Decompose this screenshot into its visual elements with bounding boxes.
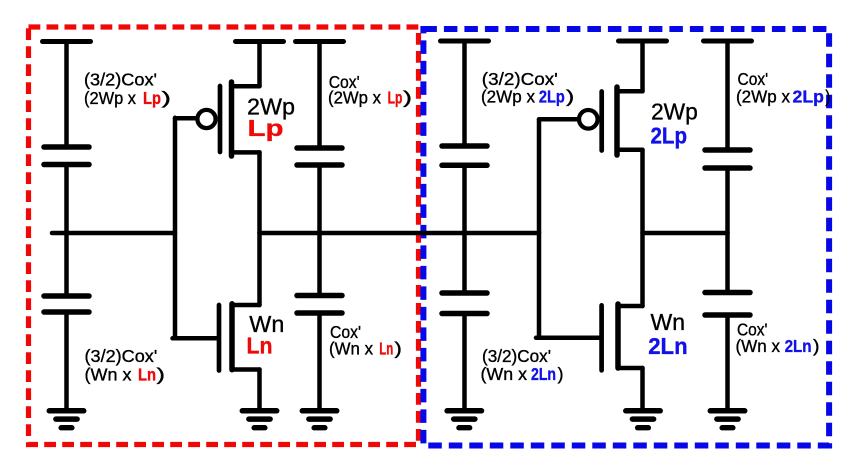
wire C8 Cox'(Wn x 2Ln) lower plate to ground (725, 315, 730, 408)
wire NMOS M4 drain horizontal (618, 304, 643, 309)
wire input node rail of inverter U1 (node A) (52, 231, 175, 236)
capacitor C6 (3/2)Cox'(Wn x 2Ln) lower plate (442, 311, 487, 317)
wire C7 Cox'(2Wp x 2Lp) top terminal to upper plate (725, 41, 730, 150)
svg-text:(3/2)Cox': (3/2)Cox' (85, 346, 158, 366)
wire PMOS M3 source up to top terminal (640, 41, 645, 91)
capacitor C3 Cox'(2Wp x Lp) lower plate (297, 162, 342, 168)
wire C3 Cox'(2Wp x Lp) top terminal to upper plate (317, 42, 322, 149)
capacitor C5 (3/2)Cox'(2Wp x 2Lp) upper plate (442, 143, 487, 149)
label value of C6: (3/2)Cox' (Wn x 2Ln) (481, 346, 564, 384)
NMOS M2 gate bar (217, 305, 222, 371)
wire C4 Cox'(Wn x Ln) lower plate to ground (317, 313, 322, 408)
svg-text:(2Wp x: (2Wp x (736, 87, 790, 107)
wire PMOS M1 drain horizontal (232, 150, 260, 155)
svg-text:): ) (157, 364, 166, 384)
capacitor C3 Cox'(2Wp x Lp) top terminal bar (296, 39, 344, 44)
svg-text:(Wn x: (Wn x (481, 364, 528, 384)
PMOS M3 source top terminal bar (619, 39, 667, 44)
red dashed box enclosing minimum-length inverter stage (29, 27, 419, 445)
wire mid rail to C6 (3/2)Cox'(Wn x 2Ln) upper plate (462, 233, 467, 293)
svg-text:(3/2)Cox': (3/2)Cox' (482, 346, 551, 366)
ground G3 below C4 (302, 411, 336, 428)
PMOS M3 gate bar (599, 92, 604, 151)
capacitor C4 Cox'(Wn x Ln) lower plate (297, 310, 342, 316)
wire NMOS M2 gate stub (173, 336, 217, 341)
svg-text:Wn: Wn (651, 309, 686, 335)
wire NMOS M2 drain up to output rail (257, 233, 262, 305)
wire PMOS M1 source up to top terminal (257, 42, 262, 87)
svg-text:): ) (566, 87, 574, 107)
wire C6 (3/2)Cox'(Wn x 2Ln) lower plate to ground (462, 314, 467, 409)
svg-text:Lp: Lp (388, 87, 403, 107)
label value of C7: Cox' (2Wp x 2Lp) (736, 69, 830, 107)
wire NMOS M2 source horizontal (232, 367, 260, 372)
wire PMOS M3 source horizontal (617, 89, 643, 94)
PMOS M1 source top terminal bar (236, 39, 284, 44)
svg-text:Ln: Ln (138, 364, 156, 384)
label value of C3: Cox' (2Wp x Lp) (328, 72, 412, 108)
blue dashed box enclosing double-length inverter stage (423, 29, 829, 446)
ground G5 below M4 source (626, 411, 660, 428)
label value of C8: Cox' (Wn x 2Ln) (736, 319, 820, 356)
svg-text:): ) (394, 338, 402, 358)
wire PMOS M3 drain horizontal (617, 148, 643, 153)
svg-text:): ) (813, 336, 820, 356)
svg-text:2Lp: 2Lp (793, 87, 824, 107)
wire PMOS M1 gate stub (175, 116, 196, 121)
ground G1 below C2 (49, 411, 83, 428)
wire output rail of inverter U1 to input of inverter U2 (node B) (260, 231, 540, 236)
PMOS M3 channel bar (614, 87, 620, 155)
svg-text:(Wn x: (Wn x (736, 336, 781, 356)
svg-text:2Ln: 2Ln (531, 364, 556, 384)
wire C5 (3/2)Cox'(2Wp x 2Lp) lower plate to mid rail (462, 165, 467, 233)
wire mid rail to C2 (3/2)Cox'(Wn x Ln) upper plate (64, 233, 69, 296)
wire NMOS M2 drain horizontal (232, 303, 260, 308)
svg-text:(Wn x: (Wn x (85, 364, 132, 384)
wire PMOS M1 source horizontal (232, 84, 260, 89)
capacitor C6 (3/2)Cox'(Wn x 2Ln) upper plate (442, 290, 487, 296)
capacitor C8 Cox'(Wn x 2Ln) lower plate (705, 312, 750, 318)
capacitor C7 Cox'(2Wp x 2Lp) upper plate (705, 147, 750, 153)
wire C7 Cox'(2Wp x 2Lp) lower plate to mid rail (725, 168, 730, 233)
wire NMOS M4 gate stub (536, 336, 600, 341)
label value of C2: (3/2)Cox' (Wn x Ln) (85, 346, 166, 384)
svg-text:): ) (403, 87, 412, 107)
NMOS M4 gate bar (599, 305, 604, 370)
NMOS M4 channel bar (615, 304, 621, 368)
wire C1 (3/2)Cox'(2Wp x Lp) top terminal to upper plate (64, 42, 69, 148)
svg-text:(2Wp x: (2Wp x (481, 87, 535, 107)
svg-text:Ln: Ln (247, 333, 273, 359)
ground G6 below C8 (710, 411, 744, 428)
capacitor C1 (3/2)Cox'(2Wp x Lp) top terminal bar (43, 39, 91, 44)
capacitor C1 (3/2)Cox'(2Wp x Lp) upper plate (44, 144, 89, 150)
svg-text:2Wp: 2Wp (651, 99, 698, 125)
svg-text:Lp: Lp (248, 115, 284, 141)
wire NMOS M4 source down to ground (640, 368, 645, 408)
label value of C4: Cox' (Wn x Ln) (329, 322, 402, 359)
wire C1 (3/2)Cox'(2Wp x Lp) lower plate to mid rail (64, 165, 69, 234)
wire C2 (3/2)Cox'(Wn x Ln) lower plate to ground (64, 312, 69, 408)
svg-text:): ) (558, 364, 564, 384)
capacitor C8 Cox'(Wn x 2Ln) upper plate (705, 290, 750, 296)
capacitor C5 (3/2)Cox'(2Wp x 2Lp) lower plate (442, 163, 487, 169)
ground G2 below M2 source (242, 411, 276, 428)
wire NMOS M4 drain up to output rail (640, 233, 645, 306)
label value of C5: (3/2)Cox' (2Wp x 2Lp) (481, 69, 574, 107)
wire PMOS M3 gate stub (539, 117, 578, 122)
wire gate net vertical of inverter U2 (537, 119, 542, 337)
PMOS M1 channel bar (229, 82, 235, 156)
PMOS M1 gate bar (218, 86, 223, 152)
capacitor C4 Cox'(Wn x Ln) upper plate (297, 293, 342, 299)
svg-text:): ) (162, 88, 172, 108)
capacitor C7 Cox'(2Wp x 2Lp) lower plate (705, 165, 750, 171)
wire C3 Cox'(2Wp x Lp) lower plate to mid rail (317, 165, 322, 233)
svg-text:(2Wp x: (2Wp x (84, 88, 136, 108)
svg-text:2Ln: 2Ln (648, 333, 688, 359)
svg-text:Lp: Lp (143, 88, 161, 108)
wire mid rail to C8 Cox'(Wn x 2Ln) upper plate (725, 233, 730, 293)
ground G4 below C6 (447, 411, 481, 428)
svg-text:): ) (825, 87, 830, 107)
wire output rail of inverter U2 (node C) (643, 231, 728, 236)
capacitor C3 Cox'(2Wp x Lp) upper plate (297, 145, 342, 151)
wire NMOS M2 source down to ground (257, 370, 262, 409)
PMOS M3 gate bubble (579, 110, 598, 129)
capacitor C5 (3/2)Cox'(2Wp x 2Lp) top terminal bar (441, 39, 489, 44)
svg-text:2Lp: 2Lp (539, 87, 565, 107)
capacitor C2 (3/2)Cox'(Wn x Ln) upper plate (44, 293, 89, 299)
wire mid rail to C4 Cox'(Wn x Ln) upper plate (317, 233, 322, 296)
svg-text:2Ln: 2Ln (785, 336, 812, 356)
wire PMOS M1 drain down to output rail (257, 152, 262, 233)
svg-text:(3/2)Cox': (3/2)Cox' (84, 69, 157, 89)
capacitor C7 Cox'(2Wp x 2Lp) top terminal bar (704, 39, 752, 44)
svg-text:(2Wp x: (2Wp x (328, 87, 381, 107)
wire NMOS M4 source horizontal (618, 366, 643, 371)
NMOS M2 channel bar (229, 304, 235, 370)
wire gate net vertical of inverter U1 (173, 118, 178, 338)
PMOS M1 gate bubble (197, 110, 215, 128)
svg-text:(Wn x: (Wn x (329, 338, 373, 358)
svg-text:Ln: Ln (379, 338, 393, 358)
svg-text:2Lp: 2Lp (651, 123, 688, 149)
wire C5 (3/2)Cox'(2Wp x 2Lp) top terminal to upper plate (462, 41, 467, 146)
wire PMOS M3 drain down to output rail (640, 150, 645, 233)
label value of C1: (3/2)Cox' (2Wp x Lp) (84, 69, 171, 108)
capacitor C2 (3/2)Cox'(Wn x Ln) lower plate (44, 309, 89, 315)
capacitor C1 (3/2)Cox'(2Wp x Lp) lower plate (44, 162, 89, 168)
